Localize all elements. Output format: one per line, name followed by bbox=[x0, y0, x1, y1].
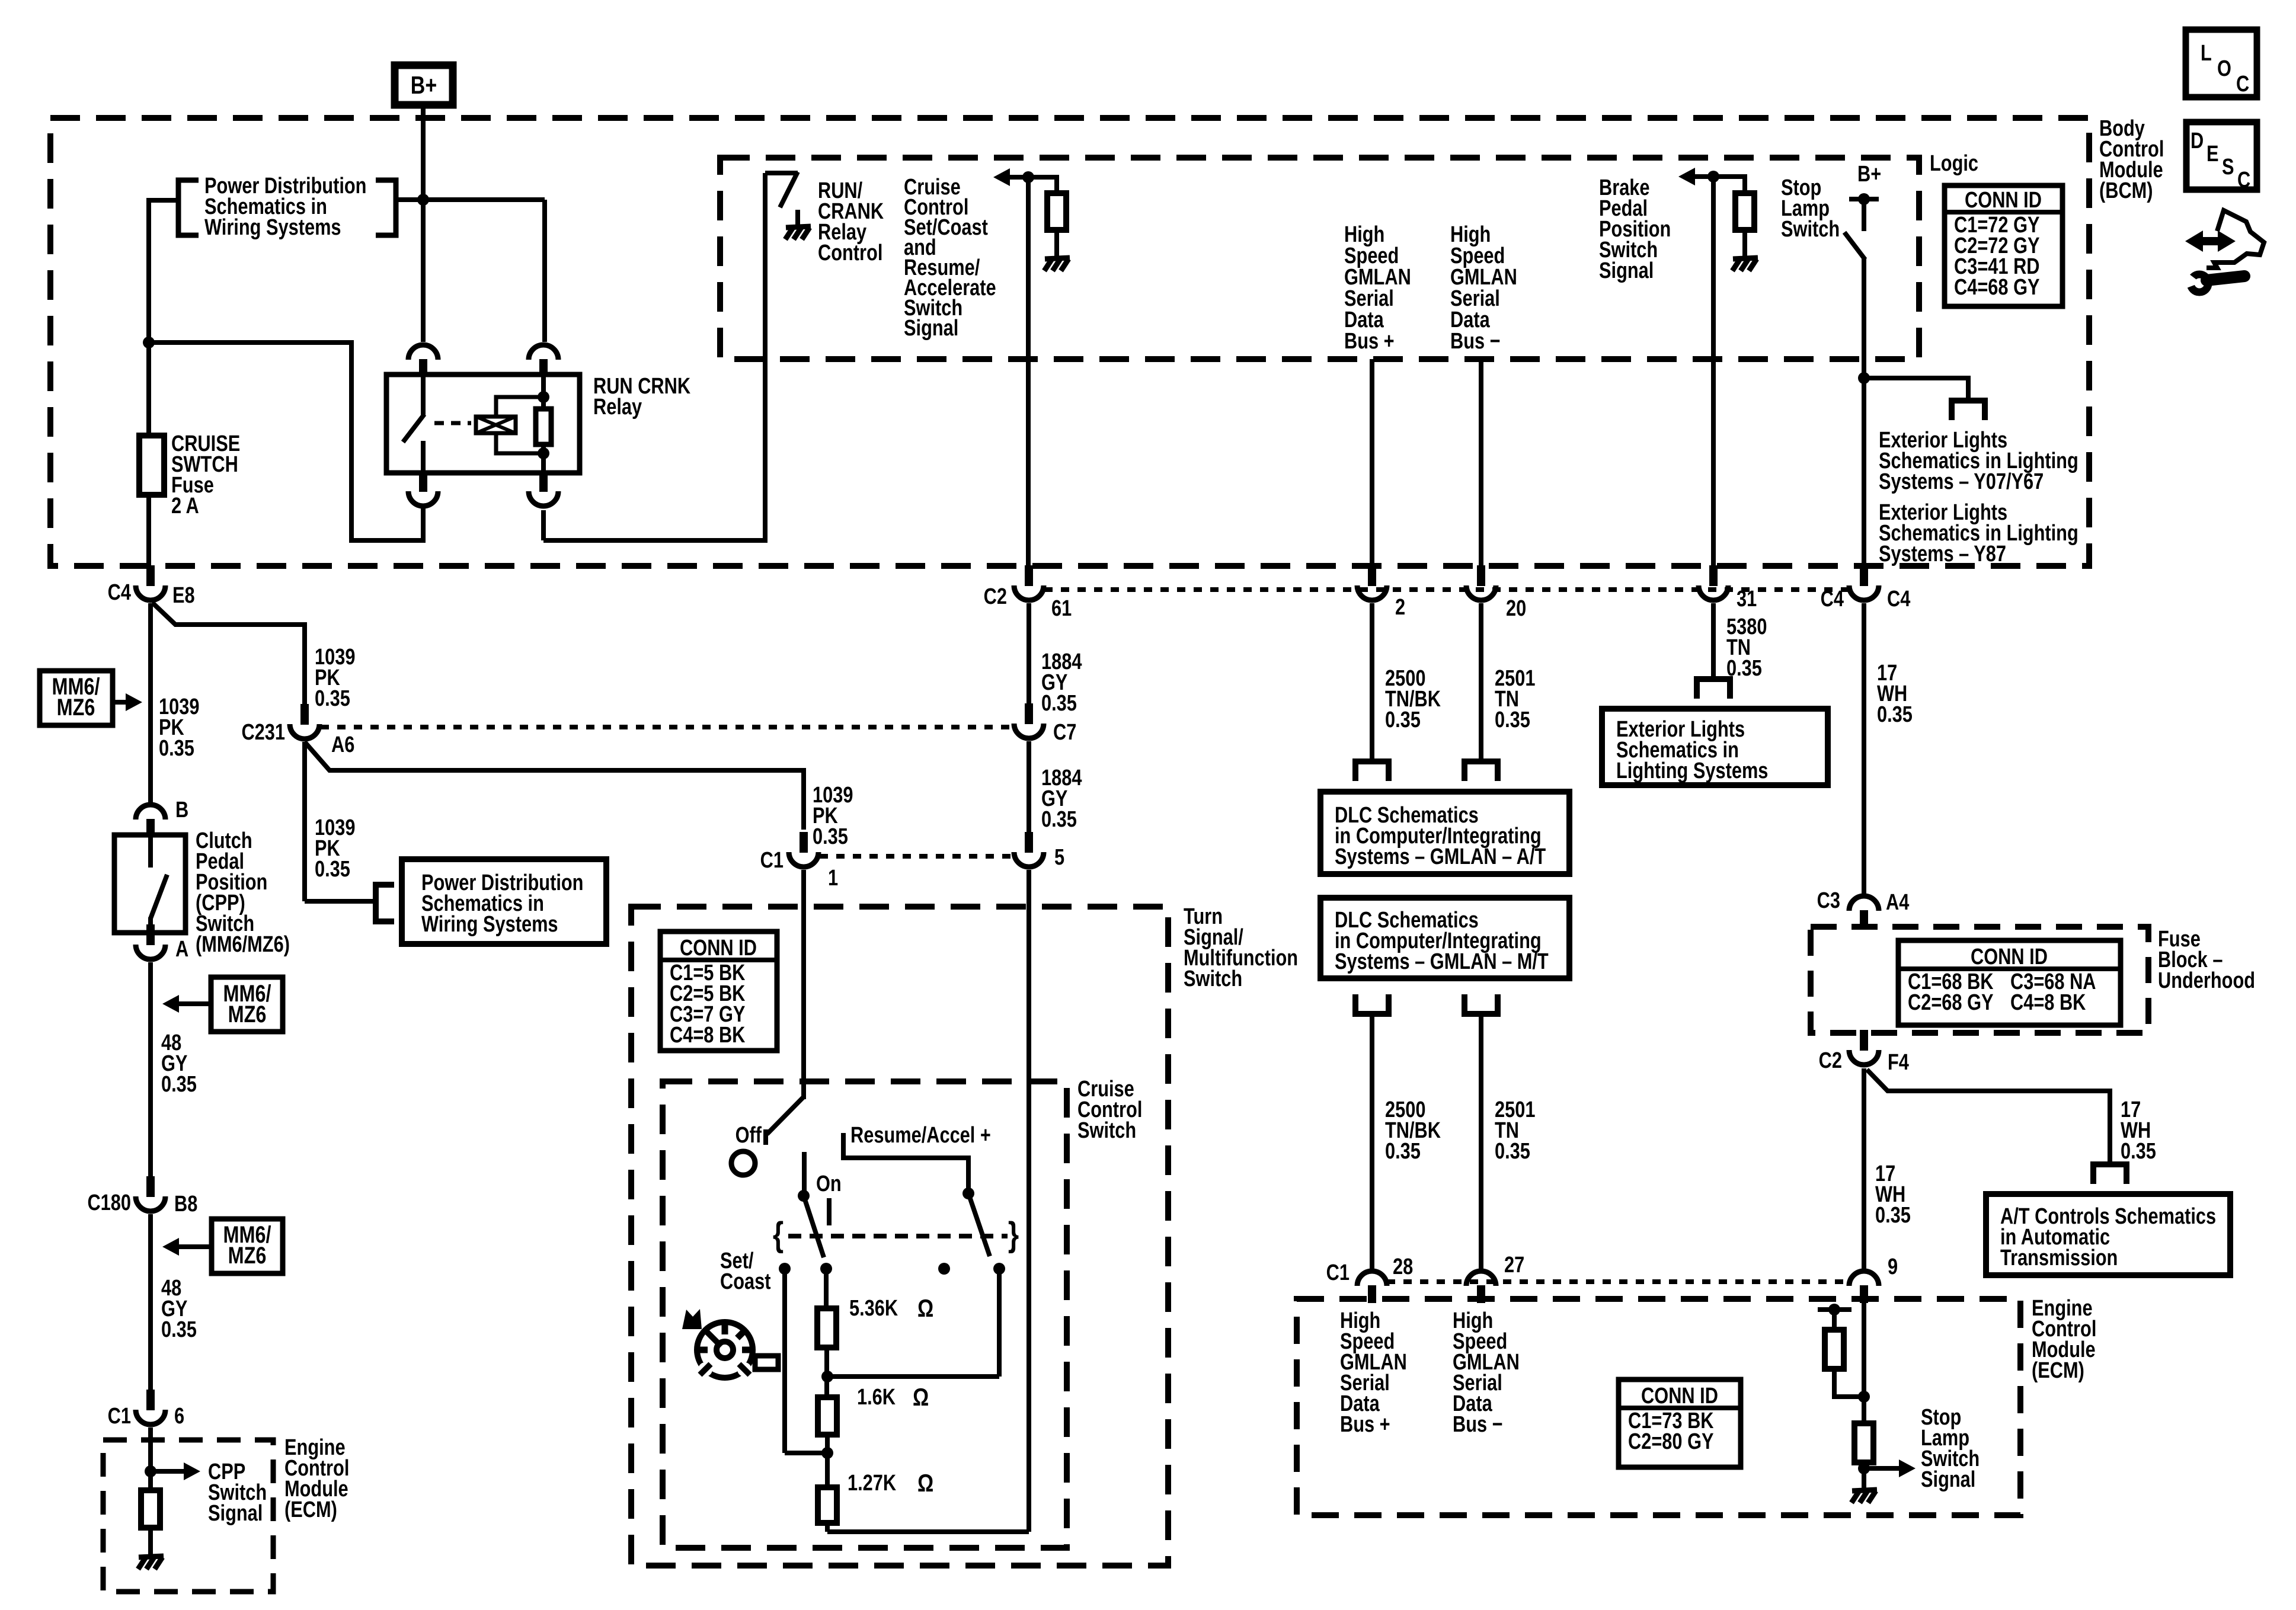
wire pin 5 down through cruise switch bbox=[1027, 870, 1031, 1532]
svg-text:CONN ID: CONN ID bbox=[1971, 945, 2048, 969]
svg-text:Signal: Signal bbox=[1599, 258, 1654, 283]
svg-text:Signal: Signal bbox=[208, 1501, 263, 1526]
svg-text:L: L bbox=[2201, 41, 2212, 66]
page bracket right for Power Distribution note bbox=[376, 180, 396, 235]
connector C2/F4 (fuse block) bbox=[1860, 1030, 1868, 1051]
MM6/MZ6 tag box 1 bbox=[40, 671, 113, 725]
node relay coil top bbox=[538, 391, 549, 403]
svg-text:C2: C2 bbox=[1819, 1048, 1842, 1073]
wire 1039 PK from C4/E8 down bbox=[148, 603, 153, 805]
svg-text:S: S bbox=[2222, 155, 2234, 180]
svg-text:0.35: 0.35 bbox=[315, 857, 350, 882]
connector pin 31 bbox=[1709, 565, 1718, 586]
svg-text:1: 1 bbox=[828, 866, 838, 891]
ground (RUN/CRANK relay control) bbox=[786, 226, 811, 228]
svg-text:61: 61 bbox=[1051, 596, 1072, 621]
wire C4 down to C3/A4 bbox=[1862, 603, 1866, 896]
svg-text:(BCM): (BCM) bbox=[2099, 178, 2153, 203]
svg-text:C3: C3 bbox=[1817, 888, 1840, 913]
svg-text:Resume/Accel +: Resume/Accel + bbox=[850, 1123, 991, 1148]
arrow MM6/MZ6 to wire (left) bbox=[178, 1001, 211, 1006]
wire cruise signal down to C2 pin 61 bbox=[1026, 177, 1031, 579]
page bracket (exterior lights) bbox=[1949, 398, 1988, 404]
svg-text:Ω: Ω bbox=[913, 1384, 929, 1411]
connector C231/A6 bbox=[300, 704, 309, 725]
wire down to ECM pin 27 bbox=[1479, 1014, 1483, 1271]
svg-text:C2: C2 bbox=[984, 584, 1007, 609]
svg-text:Ω: Ω bbox=[917, 1295, 933, 1323]
wire relay coil bottom to RUN/CRANK control bbox=[541, 510, 546, 540]
svg-text:Logic: Logic bbox=[1930, 151, 1978, 176]
wire C1 down to off/on switch bbox=[801, 870, 806, 1099]
svg-text:B+: B+ bbox=[411, 72, 437, 100]
svg-text:Systems – Y07/Y67: Systems – Y07/Y67 bbox=[1879, 469, 2044, 494]
node pull-up join bbox=[1858, 1391, 1870, 1403]
RUN CRNK relay box bbox=[386, 375, 580, 473]
svg-text:Systems – GMLAN – M/T: Systems – GMLAN – M/T bbox=[1335, 949, 1549, 974]
svg-text:Systems – Y87: Systems – Y87 bbox=[1879, 542, 2006, 566]
svg-text:0.35: 0.35 bbox=[1385, 708, 1421, 732]
node: B+ / power distribution junction bbox=[417, 194, 429, 206]
wire to pull-up resistor bbox=[1713, 177, 1745, 193]
resistor (brake signal pull-up) bbox=[1735, 193, 1754, 230]
connector C1 pin 1 (cruise switch) bbox=[800, 832, 808, 853]
wire left rail down to fuse and C4/E8 bbox=[146, 198, 151, 565]
wire F4 branch to A/T controls bbox=[1867, 1070, 2110, 1164]
CONN ID table (BCM) bbox=[1945, 185, 2062, 306]
node resume branch bbox=[962, 1188, 974, 1199]
relay coil pin bottom connector bbox=[539, 471, 548, 492]
wire junction to relay coil feed bbox=[396, 197, 545, 202]
relay coil parallel resistor bbox=[541, 375, 546, 415]
box DLC Schematics GMLAN M/T bbox=[1320, 898, 1569, 978]
connector C1 pin 6 (ECM) bbox=[146, 1390, 155, 1410]
wire pin31 down to exterior lights bracket bbox=[1711, 603, 1716, 679]
svg-text:0.35: 0.35 bbox=[1877, 702, 1913, 727]
dashed box Engine Control Module (ECM) left bbox=[103, 1440, 273, 1592]
svg-text:0.35: 0.35 bbox=[161, 1072, 197, 1097]
svg-text:0.35: 0.35 bbox=[315, 686, 350, 711]
svg-text:O: O bbox=[2217, 56, 2231, 81]
svg-text:28: 28 bbox=[1393, 1254, 1413, 1279]
connector C2 pin 61 bbox=[1025, 565, 1033, 586]
connector C4 (BCM) bbox=[1860, 565, 1868, 586]
svg-text:C: C bbox=[2237, 168, 2250, 193]
B+ tap (ECM stop lamp pull-up) bbox=[1818, 1307, 1851, 1312]
svg-text:C2=68 GY: C2=68 GY bbox=[1908, 990, 1994, 1015]
wire C231 to cruise switch C1 bbox=[305, 742, 804, 830]
resistor (stop lamp divider) bbox=[1854, 1423, 1873, 1462]
wire pin 9 into ECM bbox=[1862, 1299, 1866, 1423]
svg-text:C7: C7 bbox=[1053, 720, 1076, 745]
dashed box Fuse Block - Underhood bbox=[1811, 927, 2148, 1033]
connector pin 5 bbox=[1025, 832, 1033, 853]
svg-text:C1: C1 bbox=[760, 848, 784, 873]
left rail link bbox=[785, 1451, 827, 1455]
svg-text:}: } bbox=[1008, 1215, 1019, 1254]
MM6/MZ6 tag box 2 bbox=[211, 977, 283, 1032]
svg-text:Wiring Systems: Wiring Systems bbox=[204, 215, 341, 240]
resistor 1.6K bbox=[818, 1397, 837, 1435]
wire B+ down to relay contact bbox=[421, 105, 426, 342]
svg-text:0.35: 0.35 bbox=[1385, 1139, 1421, 1164]
wire E8 branch to C231 bbox=[152, 603, 305, 704]
svg-text:Coast: Coast bbox=[720, 1269, 771, 1294]
set/coast rail with resistors bbox=[824, 1269, 829, 1308]
page bracket [ (power distribution) bbox=[376, 885, 394, 921]
dashed box Engine Control Module (ECM) right bbox=[1297, 1299, 2020, 1515]
svg-text:Lighting Systems: Lighting Systems bbox=[1616, 758, 1768, 783]
dashed box Cruise Control Switch bbox=[663, 1081, 1067, 1548]
speedometer icon bbox=[697, 1322, 753, 1378]
connector pin 2 bbox=[1368, 565, 1376, 586]
svg-text:Underhood: Underhood bbox=[2158, 968, 2255, 993]
set/coast button bbox=[755, 1356, 778, 1369]
DESC reference box bbox=[2186, 122, 2257, 190]
svg-text:Bus +: Bus + bbox=[1340, 1412, 1390, 1437]
dashed box Turn Signal / Multifunction Switch bbox=[631, 907, 1168, 1566]
svg-text:0.35: 0.35 bbox=[161, 1317, 197, 1342]
svg-text:27: 27 bbox=[1504, 1253, 1524, 1278]
bottom link to 1884 GY wire bbox=[825, 1523, 830, 1532]
svg-text:C180: C180 bbox=[87, 1190, 131, 1215]
connector pin 9 (ECM) bbox=[1860, 1285, 1868, 1303]
svg-text:Off: Off bbox=[736, 1123, 762, 1148]
connector A (CPP switch) bbox=[146, 924, 155, 945]
svg-text:0.35: 0.35 bbox=[1041, 807, 1077, 832]
svg-text:Signal: Signal bbox=[1921, 1467, 1975, 1492]
wire pin2 down to DLC bracket bbox=[1370, 603, 1374, 761]
connector row dotted line (BCM bottom) bbox=[1044, 587, 1848, 592]
ground (CPP) bbox=[139, 1556, 164, 1557]
CONN ID table (fuse block) bbox=[1898, 940, 2121, 1025]
brake pedal position switch signal arrow (into BCM) bbox=[1694, 174, 1713, 179]
svg-text:Systems – GMLAN – A/T: Systems – GMLAN – A/T bbox=[1335, 844, 1546, 869]
left contact rail down bbox=[782, 1269, 787, 1453]
set/coast blade bbox=[804, 1196, 824, 1257]
page bracket (A/T controls) bbox=[2090, 1161, 2129, 1167]
svg-text:0.35: 0.35 bbox=[159, 736, 194, 761]
connector pin 27 (ECM) bbox=[1477, 1285, 1485, 1303]
svg-text:5: 5 bbox=[1054, 845, 1064, 870]
stop lamp switch (open) bbox=[1862, 199, 1866, 231]
arrow stop lamp switch signal bbox=[1864, 1466, 1900, 1471]
resistor (cruise signal pull-up) bbox=[1047, 193, 1066, 230]
svg-text:C: C bbox=[2236, 72, 2249, 97]
svg-text:B8: B8 bbox=[174, 1192, 197, 1217]
svg-text:E8: E8 bbox=[172, 583, 195, 608]
relay coil wiring loop bbox=[496, 397, 543, 417]
svg-text:D: D bbox=[2191, 129, 2204, 153]
svg-text:C4=8 BK: C4=8 BK bbox=[2010, 990, 2086, 1015]
wire GMLAN bus+ from logic box to pin 2 bbox=[1370, 359, 1374, 579]
resume rail down bbox=[997, 1269, 1002, 1377]
wire stop lamp switch down to C4 bbox=[1862, 257, 1866, 579]
box DLC Schematics GMLAN A/T bbox=[1320, 792, 1569, 874]
wire to exterior lights bracket bbox=[1864, 378, 1968, 401]
svg-text:6: 6 bbox=[174, 1404, 184, 1429]
box A/T Controls Schematics in Automatic Transmission bbox=[1986, 1194, 2230, 1275]
svg-text:F4: F4 bbox=[1888, 1050, 1910, 1075]
svg-text:(MM6/MZ6): (MM6/MZ6) bbox=[196, 932, 290, 957]
connector C1 pin 28 (ECM) bbox=[1368, 1285, 1376, 1303]
svg-text:MZ6: MZ6 bbox=[228, 1001, 267, 1028]
off blade bbox=[767, 1097, 804, 1134]
wire down to ECM pin 28 bbox=[1370, 1014, 1374, 1271]
outer dashed box: Body Control Module (BCM) bbox=[50, 118, 2089, 566]
link to resume rail bbox=[827, 1374, 999, 1379]
on contact mark bbox=[827, 1198, 832, 1225]
svg-text:Control: Control bbox=[818, 241, 882, 265]
MM6/MZ6 tag box 3 bbox=[212, 1219, 283, 1273]
svg-text:0.35: 0.35 bbox=[1495, 708, 1530, 732]
connector C4/E8 (BCM to harness) bbox=[146, 565, 155, 586]
svg-text:MZ6: MZ6 bbox=[228, 1242, 267, 1269]
wire brake signal down to pin 31 bbox=[1711, 177, 1716, 579]
resistor 5.36K bbox=[817, 1308, 836, 1347]
box Power Distribution Schematics in Wiring Systems bbox=[402, 859, 606, 944]
svg-text:0.35: 0.35 bbox=[1875, 1203, 1911, 1228]
svg-text:Signal: Signal bbox=[904, 316, 958, 341]
wire C7 down to pin 5 bbox=[1027, 741, 1031, 834]
svg-text:(ECM): (ECM) bbox=[2032, 1358, 2084, 1383]
LOC reference box bbox=[2186, 30, 2257, 97]
CONN ID table (ECM) bbox=[1619, 1379, 1741, 1467]
ground (ECM stop lamp) bbox=[1852, 1490, 1877, 1491]
resume/accel branch bbox=[843, 1133, 968, 1193]
svg-text:5.36K: 5.36K bbox=[849, 1296, 898, 1321]
connector row dotted line (ECM top) bbox=[1387, 1279, 1849, 1284]
arrow MM6/MZ6 to wire bbox=[113, 700, 127, 705]
resume blade bbox=[968, 1193, 990, 1256]
cruise control switch signal arrow (into BCM) bbox=[1009, 175, 1028, 180]
relay coil (box with X) bbox=[476, 417, 516, 433]
vehicle/tool icon bbox=[2185, 231, 2236, 252]
svg-text:A: A bbox=[175, 937, 188, 962]
svg-text:0.35: 0.35 bbox=[2121, 1139, 2156, 1164]
node brake signal bbox=[1707, 171, 1719, 183]
page bracket left for Power Distribution note bbox=[178, 180, 199, 235]
svg-text:9: 9 bbox=[1888, 1254, 1898, 1279]
svg-text:C4: C4 bbox=[108, 580, 132, 605]
relay contact pin top connector bbox=[419, 359, 427, 377]
ground (brake signal) bbox=[1733, 258, 1758, 259]
svg-text:A6: A6 bbox=[331, 732, 354, 757]
svg-text:0.35: 0.35 bbox=[813, 824, 848, 849]
node 1.6K/1.27K bbox=[821, 1447, 833, 1459]
svg-text:C231: C231 bbox=[241, 720, 285, 745]
dotted line C1 row bbox=[820, 854, 1012, 859]
node relay coil bottom bbox=[538, 447, 549, 459]
wire F4 down to ECM pin 9 bbox=[1862, 1068, 1866, 1271]
inner dashed box: BCM logic section bbox=[720, 158, 1919, 359]
svg-text:C2=80 GY: C2=80 GY bbox=[1628, 1429, 1714, 1454]
CPP switch contact bbox=[148, 835, 153, 868]
svg-text:2: 2 bbox=[1395, 595, 1405, 620]
ground (cruise signal) bbox=[1045, 258, 1070, 259]
svg-text:0.35: 0.35 bbox=[1495, 1139, 1530, 1164]
box Exterior Lights Schematics in Lighting Systems bbox=[1602, 709, 1828, 785]
connector pin 20 bbox=[1477, 565, 1485, 586]
wire branch to relay contact bbox=[149, 343, 423, 540]
svg-text:A4: A4 bbox=[1886, 890, 1910, 915]
node CPP switch signal bbox=[145, 1465, 156, 1477]
svg-text:Transmission: Transmission bbox=[2000, 1246, 2118, 1270]
svg-text:31: 31 bbox=[1737, 587, 1757, 612]
connector C180/B8 bbox=[146, 1176, 155, 1197]
arrow MM6/MZ6 to wire (left) bbox=[178, 1244, 212, 1249]
node stop lamp signal bbox=[1858, 1462, 1870, 1474]
svg-text:C4: C4 bbox=[1887, 587, 1911, 612]
arrow CPP switch signal bbox=[151, 1469, 185, 1474]
svg-text:Bus −: Bus − bbox=[1453, 1412, 1503, 1437]
off contact circle bbox=[731, 1151, 755, 1175]
clutch pedal position (CPP) switch box bbox=[114, 835, 186, 933]
svg-text:Switch: Switch bbox=[1781, 217, 1840, 242]
svg-text:20: 20 bbox=[1506, 596, 1526, 621]
wire on-branch bbox=[802, 1152, 807, 1196]
relay mechanical link dashes bbox=[434, 421, 471, 425]
node on-branch bbox=[798, 1190, 810, 1202]
svg-text:Bus +: Bus + bbox=[1344, 329, 1395, 354]
relay coil pin top connector bbox=[539, 359, 548, 377]
resistor 1.27K bbox=[818, 1487, 837, 1523]
svg-text:Ω: Ω bbox=[917, 1470, 933, 1497]
resistor (CPP pull) bbox=[148, 1471, 153, 1490]
svg-text:Wiring Systems: Wiring Systems bbox=[421, 912, 558, 937]
svg-text:1.27K: 1.27K bbox=[848, 1471, 896, 1496]
svg-text:Switch: Switch bbox=[1077, 1118, 1136, 1143]
connector C3/A4 (fuse block) bbox=[1860, 910, 1868, 928]
connector C7 bbox=[1025, 703, 1033, 724]
CONN ID table (turn signal switch) bbox=[660, 932, 777, 1051]
contact dots bbox=[779, 1263, 791, 1275]
svg-text:B+: B+ bbox=[1857, 162, 1881, 187]
svg-text:0.35: 0.35 bbox=[1041, 691, 1077, 716]
wire A down to C180 bbox=[148, 962, 153, 1179]
svg-text:C1: C1 bbox=[108, 1404, 131, 1429]
B+ feed bar and node bbox=[1849, 197, 1879, 201]
wire pin20 down to DLC bracket bbox=[1479, 603, 1483, 761]
wire 1884 GY from C2 61 down bbox=[1027, 603, 1031, 705]
resistor (ECM pull-up) bbox=[1825, 1330, 1844, 1369]
B+ power symbol box bbox=[395, 65, 453, 105]
node cruise signal bbox=[1022, 171, 1034, 183]
wire GMLAN bus- from logic box to pin 20 bbox=[1479, 359, 1483, 579]
svg-text:On: On bbox=[816, 1172, 842, 1196]
svg-text:{: { bbox=[773, 1215, 784, 1254]
svg-text:MZ6: MZ6 bbox=[57, 694, 95, 721]
svg-text:(ECM): (ECM) bbox=[284, 1497, 337, 1522]
wire into ECM (CPP) bbox=[148, 1427, 153, 1471]
relay switch contact bbox=[421, 375, 426, 415]
page bracket below DLC (right) bbox=[1462, 1011, 1501, 1017]
svg-text:B: B bbox=[175, 798, 188, 822]
svg-text:C4=68 GY: C4=68 GY bbox=[1954, 275, 2040, 300]
svg-text:2 A: 2 A bbox=[171, 494, 199, 518]
svg-text:Bus −: Bus − bbox=[1450, 329, 1501, 354]
wire C231 down to power distribution bracket bbox=[302, 742, 307, 901]
wire from left bracket to left rail bbox=[149, 198, 178, 203]
wire B8 down to C1/6 bbox=[148, 1214, 153, 1393]
switch mechanical dashed link bbox=[788, 1234, 1008, 1238]
wire to pull-up resistor bbox=[1028, 177, 1057, 193]
relay contact pin bottom connector bbox=[419, 471, 427, 492]
svg-text:1.6K: 1.6K bbox=[857, 1385, 896, 1410]
dotted line C231 row bbox=[321, 725, 1011, 729]
svg-text:CONN ID: CONN ID bbox=[1965, 188, 2042, 213]
node: left rail to relay contact branch bbox=[143, 337, 155, 348]
svg-text:C4: C4 bbox=[1821, 587, 1844, 612]
svg-text:Switch: Switch bbox=[1184, 966, 1242, 991]
node 5.36K/1.6K bbox=[821, 1371, 833, 1382]
svg-text:CONN ID: CONN ID bbox=[680, 936, 757, 961]
svg-text:Relay: Relay bbox=[593, 395, 642, 420]
svg-text:C4=8 BK: C4=8 BK bbox=[670, 1023, 745, 1048]
node to exterior-lights branch bbox=[1858, 372, 1870, 384]
page bracket below DLC (left) bbox=[1352, 1011, 1392, 1017]
page bracket (exterior lights schematics) bbox=[1694, 676, 1733, 682]
svg-text:E: E bbox=[2207, 142, 2219, 167]
svg-text:CONN ID: CONN ID bbox=[1641, 1384, 1718, 1409]
RUN/CRANK relay control switch to ground (in BCM) bbox=[765, 171, 798, 175]
svg-text:C1: C1 bbox=[1326, 1260, 1350, 1285]
page bracket (DLC A/T left) bbox=[1352, 758, 1392, 764]
fuse CRUISE SWTCH 2A bbox=[139, 436, 164, 495]
page bracket (DLC A/T right) bbox=[1462, 758, 1501, 764]
connector B (CPP switch) bbox=[146, 819, 155, 837]
